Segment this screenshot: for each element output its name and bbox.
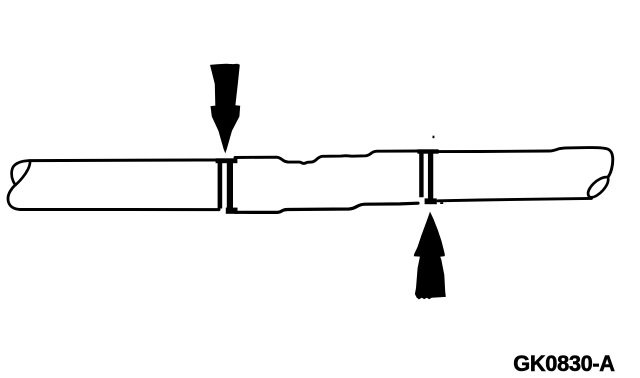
left tube left end edge [8,185,20,210]
crimp band 2 left line [419,151,423,197]
middle tube top edge with notch [235,151,419,163]
crimp band 2 bottom blob [425,198,437,204]
left tube top edge [30,158,219,162]
left tube end loop diagonal side [16,161,31,185]
middle tube bottom edge with steps [235,203,418,212]
crimp band 1 top cap [216,158,238,163]
right tube end loop [588,177,608,197]
crimp band 2 right line [428,151,433,201]
speck above band 2 [433,136,435,139]
bottom arrow (points up at band 2) [414,212,446,300]
right tube top edge [438,148,613,178]
left tube end loop left side [12,161,29,185]
svg-text:GK0830-A: GK0830-A [513,351,615,376]
crimp band 1 bottom blob [226,208,238,214]
crimp band 1 left line [218,161,223,209]
crimp band 1 right line [227,161,233,212]
left tube bottom edge [20,208,220,211]
top arrow (points down at band 1) [210,64,240,154]
right tube bottom edge [438,198,592,200]
crimp band 2 top cap [417,149,438,153]
tick below bottom edge right of band 2 [440,202,443,204]
